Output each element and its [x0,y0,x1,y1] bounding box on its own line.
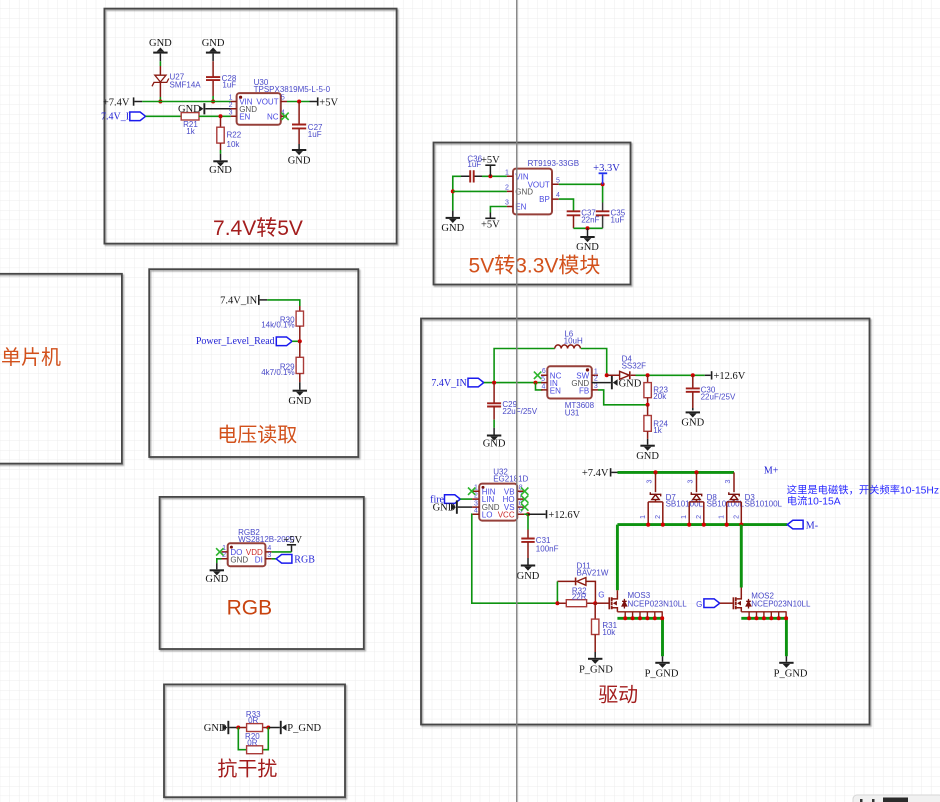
svg-text:RGB: RGB [294,554,315,565]
no-connect X on HO [521,495,528,502]
net flag fire [430,495,472,506]
wire EN loop / +5V lower [490,207,507,213]
IC U32 EG2181D [472,467,528,520]
svg-text:+12.6V: +12.6V [714,371,746,382]
svg-text:VCC: VCC [498,510,515,519]
ground net flag (pin3 of U32) [433,500,473,513]
svg-text:+5V: +5V [319,97,338,108]
svg-text:DI: DI [255,555,263,564]
svg-text:GND: GND [636,451,659,462]
svg-text:0R: 0R [247,738,257,747]
no-connect X on VS [521,503,528,510]
IC RT9193-33GB [505,159,579,214]
wire C28 to rail [212,96,214,102]
node C27 junction [297,100,301,104]
svg-text:TPSPX3819M5-L-5-0: TPSPX3819M5-L-5-0 [254,85,331,94]
svg-text:SMF14A: SMF14A [170,81,202,90]
transistor MOS2 NCEP023N10LL [733,588,811,619]
svg-text:GND: GND [576,242,599,253]
svg-text:GND: GND [178,104,201,115]
IC U31 MT3608 [541,366,598,417]
node bottom junction [586,226,590,230]
svg-text:NCEP023N10LL: NCEP023N10LL [628,600,688,609]
svg-text:5: 5 [281,95,285,102]
power flag +3.3V (blue) [593,163,620,184]
wire LO route [472,514,558,603]
svg-text:1: 1 [719,515,726,519]
svg-text:GND: GND [288,156,311,167]
svg-text:P_GND: P_GND [579,665,613,676]
svg-text:G: G [696,600,702,609]
node right junction [266,726,270,730]
net flag 7.4V_IN [101,112,146,123]
svg-text:BP: BP [539,195,550,204]
svg-text:RGB: RGB [227,597,273,620]
block frame: driver [421,319,870,725]
svg-text:22R: 22R [572,592,587,601]
svg-text:电流10-15A: 电流10-15A [787,495,841,508]
wire gate [595,602,608,604]
svg-text:1: 1 [594,369,598,376]
svg-text:3: 3 [474,500,478,507]
svg-text:NC: NC [267,112,279,121]
svg-text:GND: GND [441,223,464,234]
svg-text:0R: 0R [248,716,258,725]
net flag RGB [272,554,316,565]
svg-text:3: 3 [505,200,509,207]
svg-text:7.4V转5V: 7.4V转5V [213,217,303,240]
svg-text:GND: GND [619,378,642,389]
capacitor C37 22nF [567,208,600,228]
no-connect X on VB [521,488,528,495]
node C28/rail junction [211,100,215,104]
no-connect X on DO [216,548,223,555]
svg-text:22uF/25V: 22uF/25V [701,393,736,402]
resistor R31 10k [592,603,618,652]
wire 7.4V_IN to R30 [267,300,300,306]
floating toolbar (bottom right) [853,795,940,802]
power flag +7.4V [103,97,142,108]
svg-text:M+: M+ [764,465,779,476]
svg-text:4: 4 [474,507,478,514]
svg-text:+7.4V: +7.4V [103,97,130,108]
node divider junction [298,339,302,343]
svg-text:2: 2 [505,185,509,192]
block frame: MCU (cut off at left) [0,274,122,464]
svg-text:M-: M- [806,521,818,532]
svg-text:C31: C31 [536,536,551,545]
resistor R21 1k [181,113,199,136]
svg-text:G: G [598,591,604,600]
svg-text:4: 4 [267,545,271,552]
wire MOS3 source bus (thick) [617,618,662,656]
no-connect X on NC pin [281,113,288,120]
svg-text:2: 2 [696,515,703,519]
svg-text:SB10100L: SB10100L [745,499,783,508]
diode D7 SB10100L [640,470,703,526]
svg-text:3: 3 [594,383,598,390]
svg-text:+3.3V: +3.3V [593,163,620,174]
svg-text:1uF: 1uF [222,81,236,90]
power flag +5V [310,97,339,108]
wire +7.4V rail [142,101,230,103]
power flag 7.4V_IN [220,295,267,306]
node EN/R22 junction [219,114,223,118]
resistor R30 14k/0.1% [261,306,303,341]
inductor L6 10uH [555,330,583,349]
svg-text:Power_Level_Read: Power_Level_Read [196,336,275,347]
ground P_GND (MOS2) [774,656,808,679]
block frame: 7.4V to 5V converter [104,9,396,244]
svg-text:100nF: 100nF [536,545,559,554]
net flag 7.4V_IN (driver) [431,378,483,389]
svg-text:1: 1 [640,515,647,519]
svg-text:2: 2 [655,515,662,519]
svg-text:单片机: 单片机 [1,346,61,369]
TVS diode U27 SMF14A [152,66,201,97]
ground (below C29) [483,428,506,450]
svg-text:3: 3 [688,480,695,484]
wire 12.6V rail [636,374,705,376]
wire MOS3 drain (thick) [616,525,619,591]
svg-text:GND: GND [202,38,225,49]
svg-text:4: 4 [556,192,560,199]
resistor R22 10k [217,116,242,154]
P_GND net flag (right) [268,721,321,734]
wire U27 to rail [159,97,161,102]
net flag Power_Level_Read [196,336,300,347]
svg-text:+7.4V: +7.4V [582,468,609,479]
svg-text:R22: R22 [227,131,242,140]
svg-text:3: 3 [267,552,271,559]
svg-text:SS32F: SS32F [622,362,647,371]
ground (above U27) [149,38,172,61]
node VCC junction [526,512,530,516]
svg-text:5: 5 [556,177,560,184]
wire +7.4V rail (thick) [618,471,735,474]
block frame: voltage reading [149,269,358,457]
ground P_GND (below R31) [579,652,613,676]
svg-text:GND: GND [517,571,540,582]
power flag +5V (bottom) [481,213,500,231]
transistor MOS3 NCEP023N10LL [609,590,687,618]
power flag +5V [283,535,302,552]
node R23 junction [646,373,650,377]
svg-text:EN: EN [550,386,561,395]
sheet boundary line [516,0,518,802]
wire D11 left leg [556,581,558,603]
ground (below R24) [636,439,659,462]
power flag +5V (top) [481,155,500,176]
capacitor C36 1uF [461,154,483,182]
power flag +12.6V (U32) [528,510,581,521]
wire M- rail (thick) [617,523,787,526]
node VIN junction [488,174,492,178]
wire EN tie [536,383,543,390]
svg-text:U31: U31 [565,408,580,417]
node FB junction [646,403,650,407]
diode D4 SS32F [607,354,646,379]
svg-text:GND: GND [205,574,228,585]
svg-text:1: 1 [229,95,233,102]
IC RGB2 WS2812B-2020 [222,528,296,566]
ground (below C31) [517,558,540,582]
ground (below C30) [681,408,704,429]
wire VDD to +5V [272,551,292,553]
svg-text:P_GND: P_GND [287,723,321,734]
ground (above C28) [202,38,225,61]
resistor R23 20k [644,375,669,405]
capacitor C28 1uF [206,61,237,96]
resistor R29 4k7/0.1% [261,341,303,382]
resistor R20 0R [245,732,263,754]
ground (below R29) [288,382,311,407]
svg-text:GND: GND [209,165,232,176]
svg-text:14k/0.1%: 14k/0.1% [261,321,294,330]
capacitor C31 100nF [521,530,558,559]
svg-text:驱动: 驱动 [598,684,638,707]
svg-text:22nF: 22nF [581,216,599,225]
block frame: RGB [160,497,364,649]
svg-text:5: 5 [519,507,523,514]
svg-text:10k: 10k [227,140,241,149]
node VOUT junction [601,182,605,186]
wire input net [484,349,555,383]
svg-text:MOS3: MOS3 [628,591,651,600]
ground P_GND (MOS3) [645,656,679,679]
ground (bottom) [576,228,599,253]
svg-text:2: 2 [734,515,741,519]
svg-text:6: 6 [542,368,546,375]
wire L6 to SW [581,349,607,376]
svg-text:P_GND: P_GND [645,669,679,680]
ground (below R22) [209,154,232,176]
svg-text:4k7/0.1%: 4k7/0.1% [261,368,294,377]
svg-text:5: 5 [541,376,545,383]
resistor R33 0R [238,710,268,732]
ground net flag (pin2 of U30) [178,103,231,115]
wire GND pin to ground [217,559,222,563]
node left junction [236,726,240,730]
svg-text:1uF: 1uF [611,216,625,225]
svg-text:20k: 20k [653,392,667,401]
ground net flag (left) [204,721,239,734]
svg-text:3: 3 [647,480,654,484]
svg-text:VOUT: VOUT [528,180,550,189]
svg-text:7.4V_IN: 7.4V_IN [220,295,257,306]
wire MOS2 source bus (thick) [741,618,786,656]
ground (left) [441,211,464,235]
wire U27 to GND [159,61,161,66]
svg-text:GND: GND [288,396,311,407]
nodes MOS3 source bus [623,616,664,620]
wire VCC [524,514,528,529]
nodes MOS2 source bus [747,616,788,620]
svg-text:2: 2 [594,376,598,383]
svg-text:VOUT: VOUT [256,98,278,107]
net flag G (MOS2) [696,599,733,609]
wire VOUT [559,184,603,202]
ground (below C27) [288,144,311,167]
resistor R32 22R [557,586,595,606]
svg-text:5V转3.3V模块: 5V转3.3V模块 [469,255,601,278]
svg-text:FB: FB [579,386,589,395]
capacitor C29 22uF/25V [487,383,538,428]
wire bottom row [574,227,603,229]
capacitor C30 22uF/25V [686,375,736,408]
svg-text:2: 2 [229,102,233,109]
resistor R24 1k [644,405,669,439]
svg-text:1uF: 1uF [308,130,322,139]
node R32 left junction [555,601,559,605]
wire VOUT to +5V [287,101,310,103]
node GND row junction [451,189,455,193]
wire GND pin2 [453,190,507,192]
svg-text:1k: 1k [653,426,662,435]
svg-text:SB10100L: SB10100L [666,499,704,508]
svg-text:GND: GND [483,438,506,449]
wire FB [598,390,648,405]
net flag M- [787,520,818,531]
svg-text:+12.6V: +12.6V [548,510,580,521]
node EN tie junction [534,381,538,385]
node U27/rail junction [158,100,162,104]
node gate junction [593,601,597,605]
svg-text:EG2181D: EG2181D [493,475,528,484]
diode D3 SB10100L [719,472,783,526]
no-connect X on NC (U31) [534,372,541,379]
IC U30 TPSPX3819M5-L-5-0 [229,78,331,125]
svg-text:RT9193-33GB: RT9193-33GB [528,159,579,168]
capacitor C27 1uF [292,102,323,145]
wire MOS2 drain (thick) [740,525,743,588]
capacitor C35 1uF [596,203,626,229]
diode D11 BAV21W [557,561,608,603]
svg-text:电压读取: 电压读取 [217,424,297,447]
wire 7.4V_IN to R21 [146,115,182,117]
svg-text:4: 4 [541,384,545,391]
svg-text:SB10100L: SB10100L [707,499,745,508]
power flag +7.4V (driver) [582,468,618,479]
wire R21 to EN [199,115,231,117]
ground (RGB) [205,563,228,585]
svg-text:10uH: 10uH [564,337,583,346]
svg-text:LO: LO [482,510,493,519]
block frame: 5V to 3.3V module [434,143,631,285]
node C30 junction [691,373,695,377]
power flag +12.6V (U31) [705,371,746,382]
ground net flag (pin2 of U31) [592,376,642,390]
no-connect X on HIN [468,488,475,495]
svg-text:+5V: +5V [481,220,500,231]
svg-text:1: 1 [505,169,509,176]
svg-text:NCEP023N10LL: NCEP023N10LL [751,600,811,609]
svg-text:1: 1 [681,515,688,519]
svg-text:P_GND: P_GND [774,669,808,680]
svg-text:抗干扰: 抗干扰 [217,758,277,781]
wire C36 left / VIN net [453,176,507,210]
svg-text:22uF/25V: 22uF/25V [502,407,537,416]
svg-text:3: 3 [229,109,233,116]
svg-text:GND: GND [681,418,704,429]
svg-text:7.4V_IN: 7.4V_IN [431,378,466,389]
svg-text:这里是电磁铁，开关频率10-15Hz: 这里是电磁铁，开关频率10-15Hz [787,484,939,497]
svg-text:10k: 10k [602,628,616,637]
svg-text:3: 3 [725,480,732,484]
node input junction [492,381,496,385]
svg-text:EN: EN [239,112,250,121]
block frame: anti-interference [164,684,345,797]
svg-text:GND: GND [149,38,172,49]
node SW junction [605,373,609,377]
svg-text:1uF: 1uF [467,160,481,169]
wire parallel loop [238,728,268,750]
svg-text:1k: 1k [186,127,195,136]
diode D8 SB10100L [681,470,744,526]
svg-text:BAV21W: BAV21W [577,568,609,577]
wire BP [559,199,574,211]
